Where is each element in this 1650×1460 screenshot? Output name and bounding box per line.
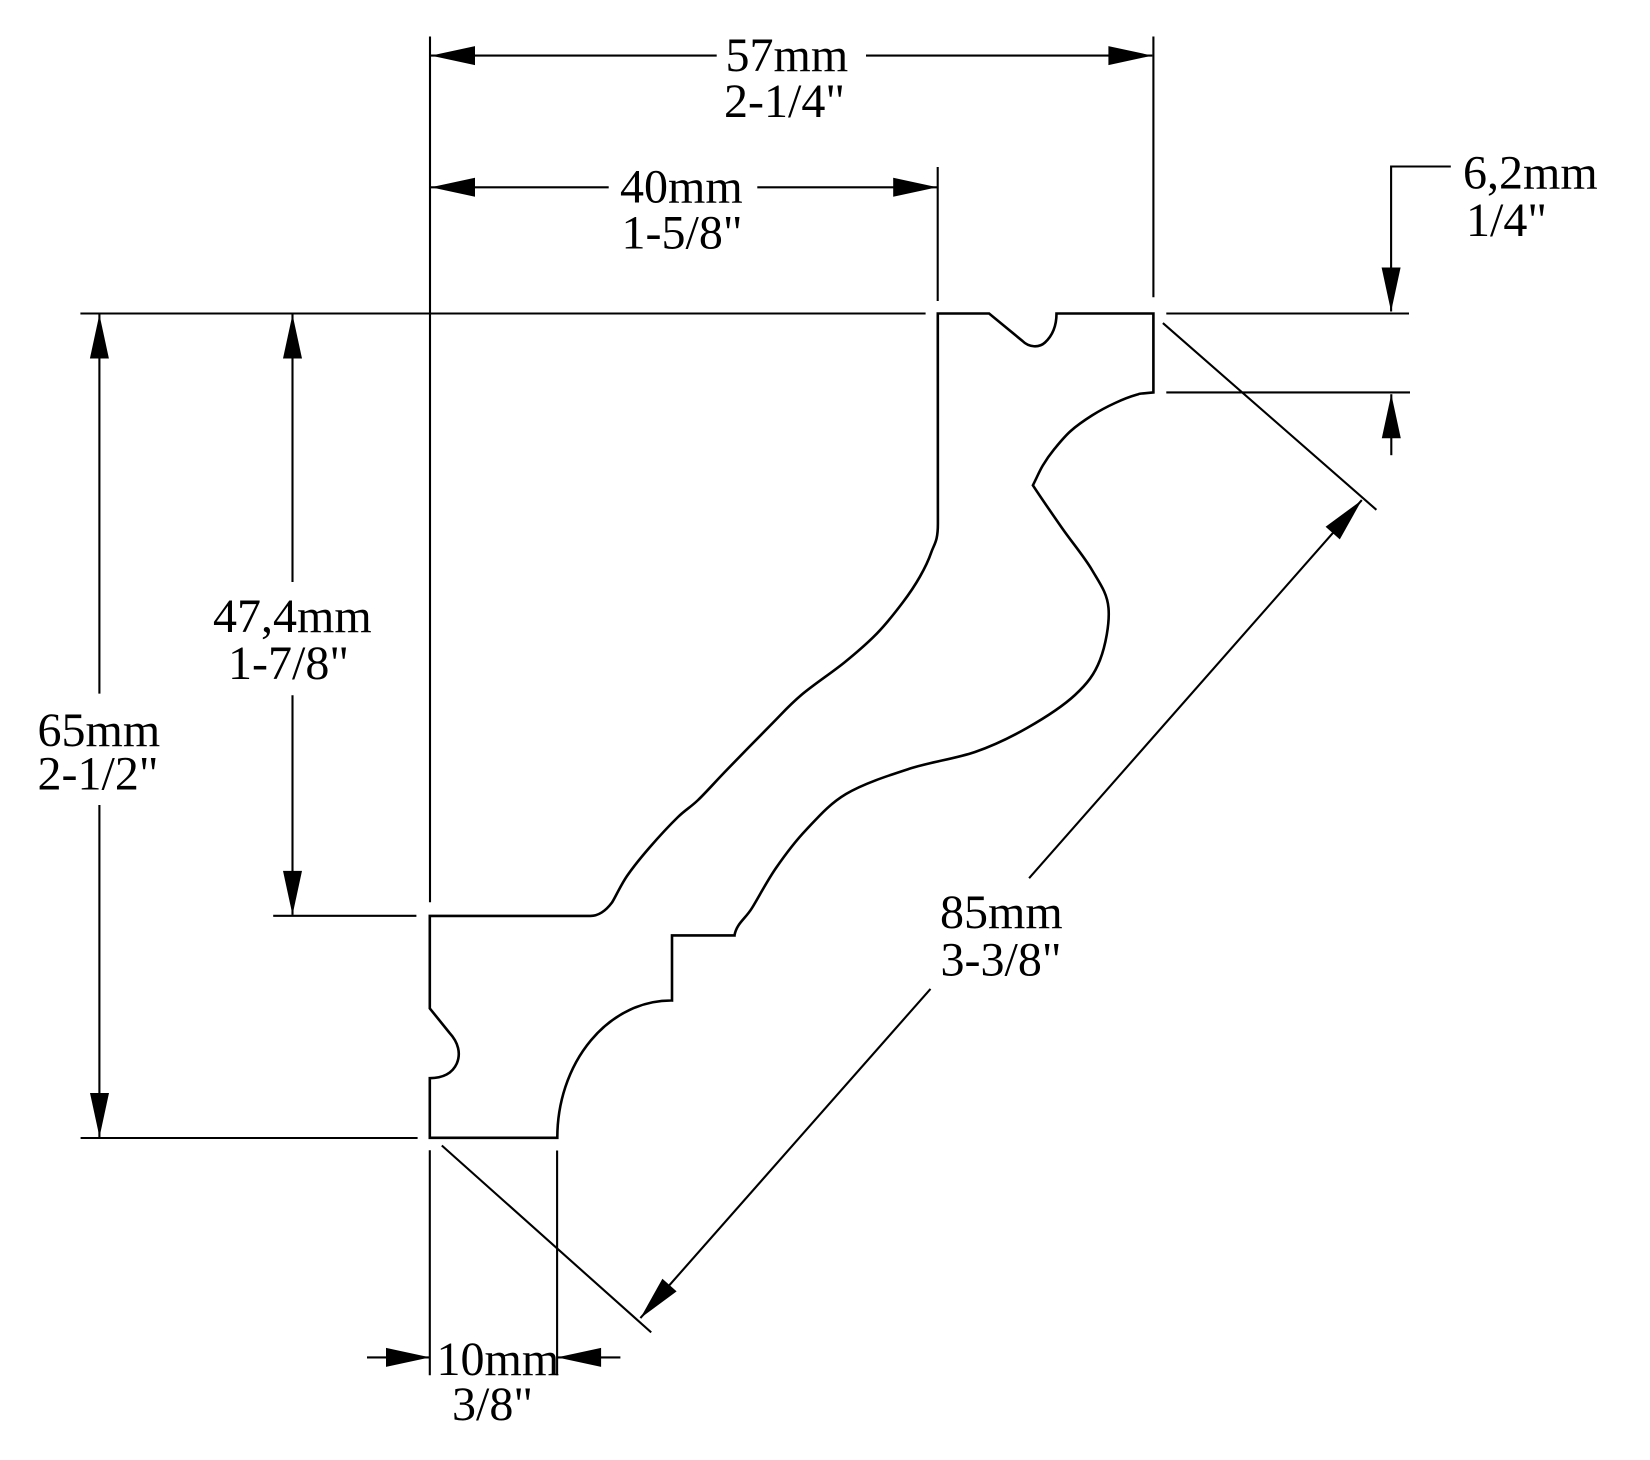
svg-text:1-7/8": 1-7/8" <box>228 637 349 690</box>
svg-text:2-1/4": 2-1/4" <box>724 75 845 128</box>
svg-text:6,2mm: 6,2mm <box>1463 147 1598 200</box>
svg-text:3/8": 3/8" <box>452 1378 533 1431</box>
svg-text:85mm: 85mm <box>940 886 1063 939</box>
svg-text:2-1/2": 2-1/2" <box>38 748 159 801</box>
svg-text:3-3/8": 3-3/8" <box>941 934 1062 987</box>
svg-text:47,4mm: 47,4mm <box>213 590 372 643</box>
svg-text:1-5/8": 1-5/8" <box>622 206 743 259</box>
svg-text:1/4": 1/4" <box>1466 194 1547 247</box>
